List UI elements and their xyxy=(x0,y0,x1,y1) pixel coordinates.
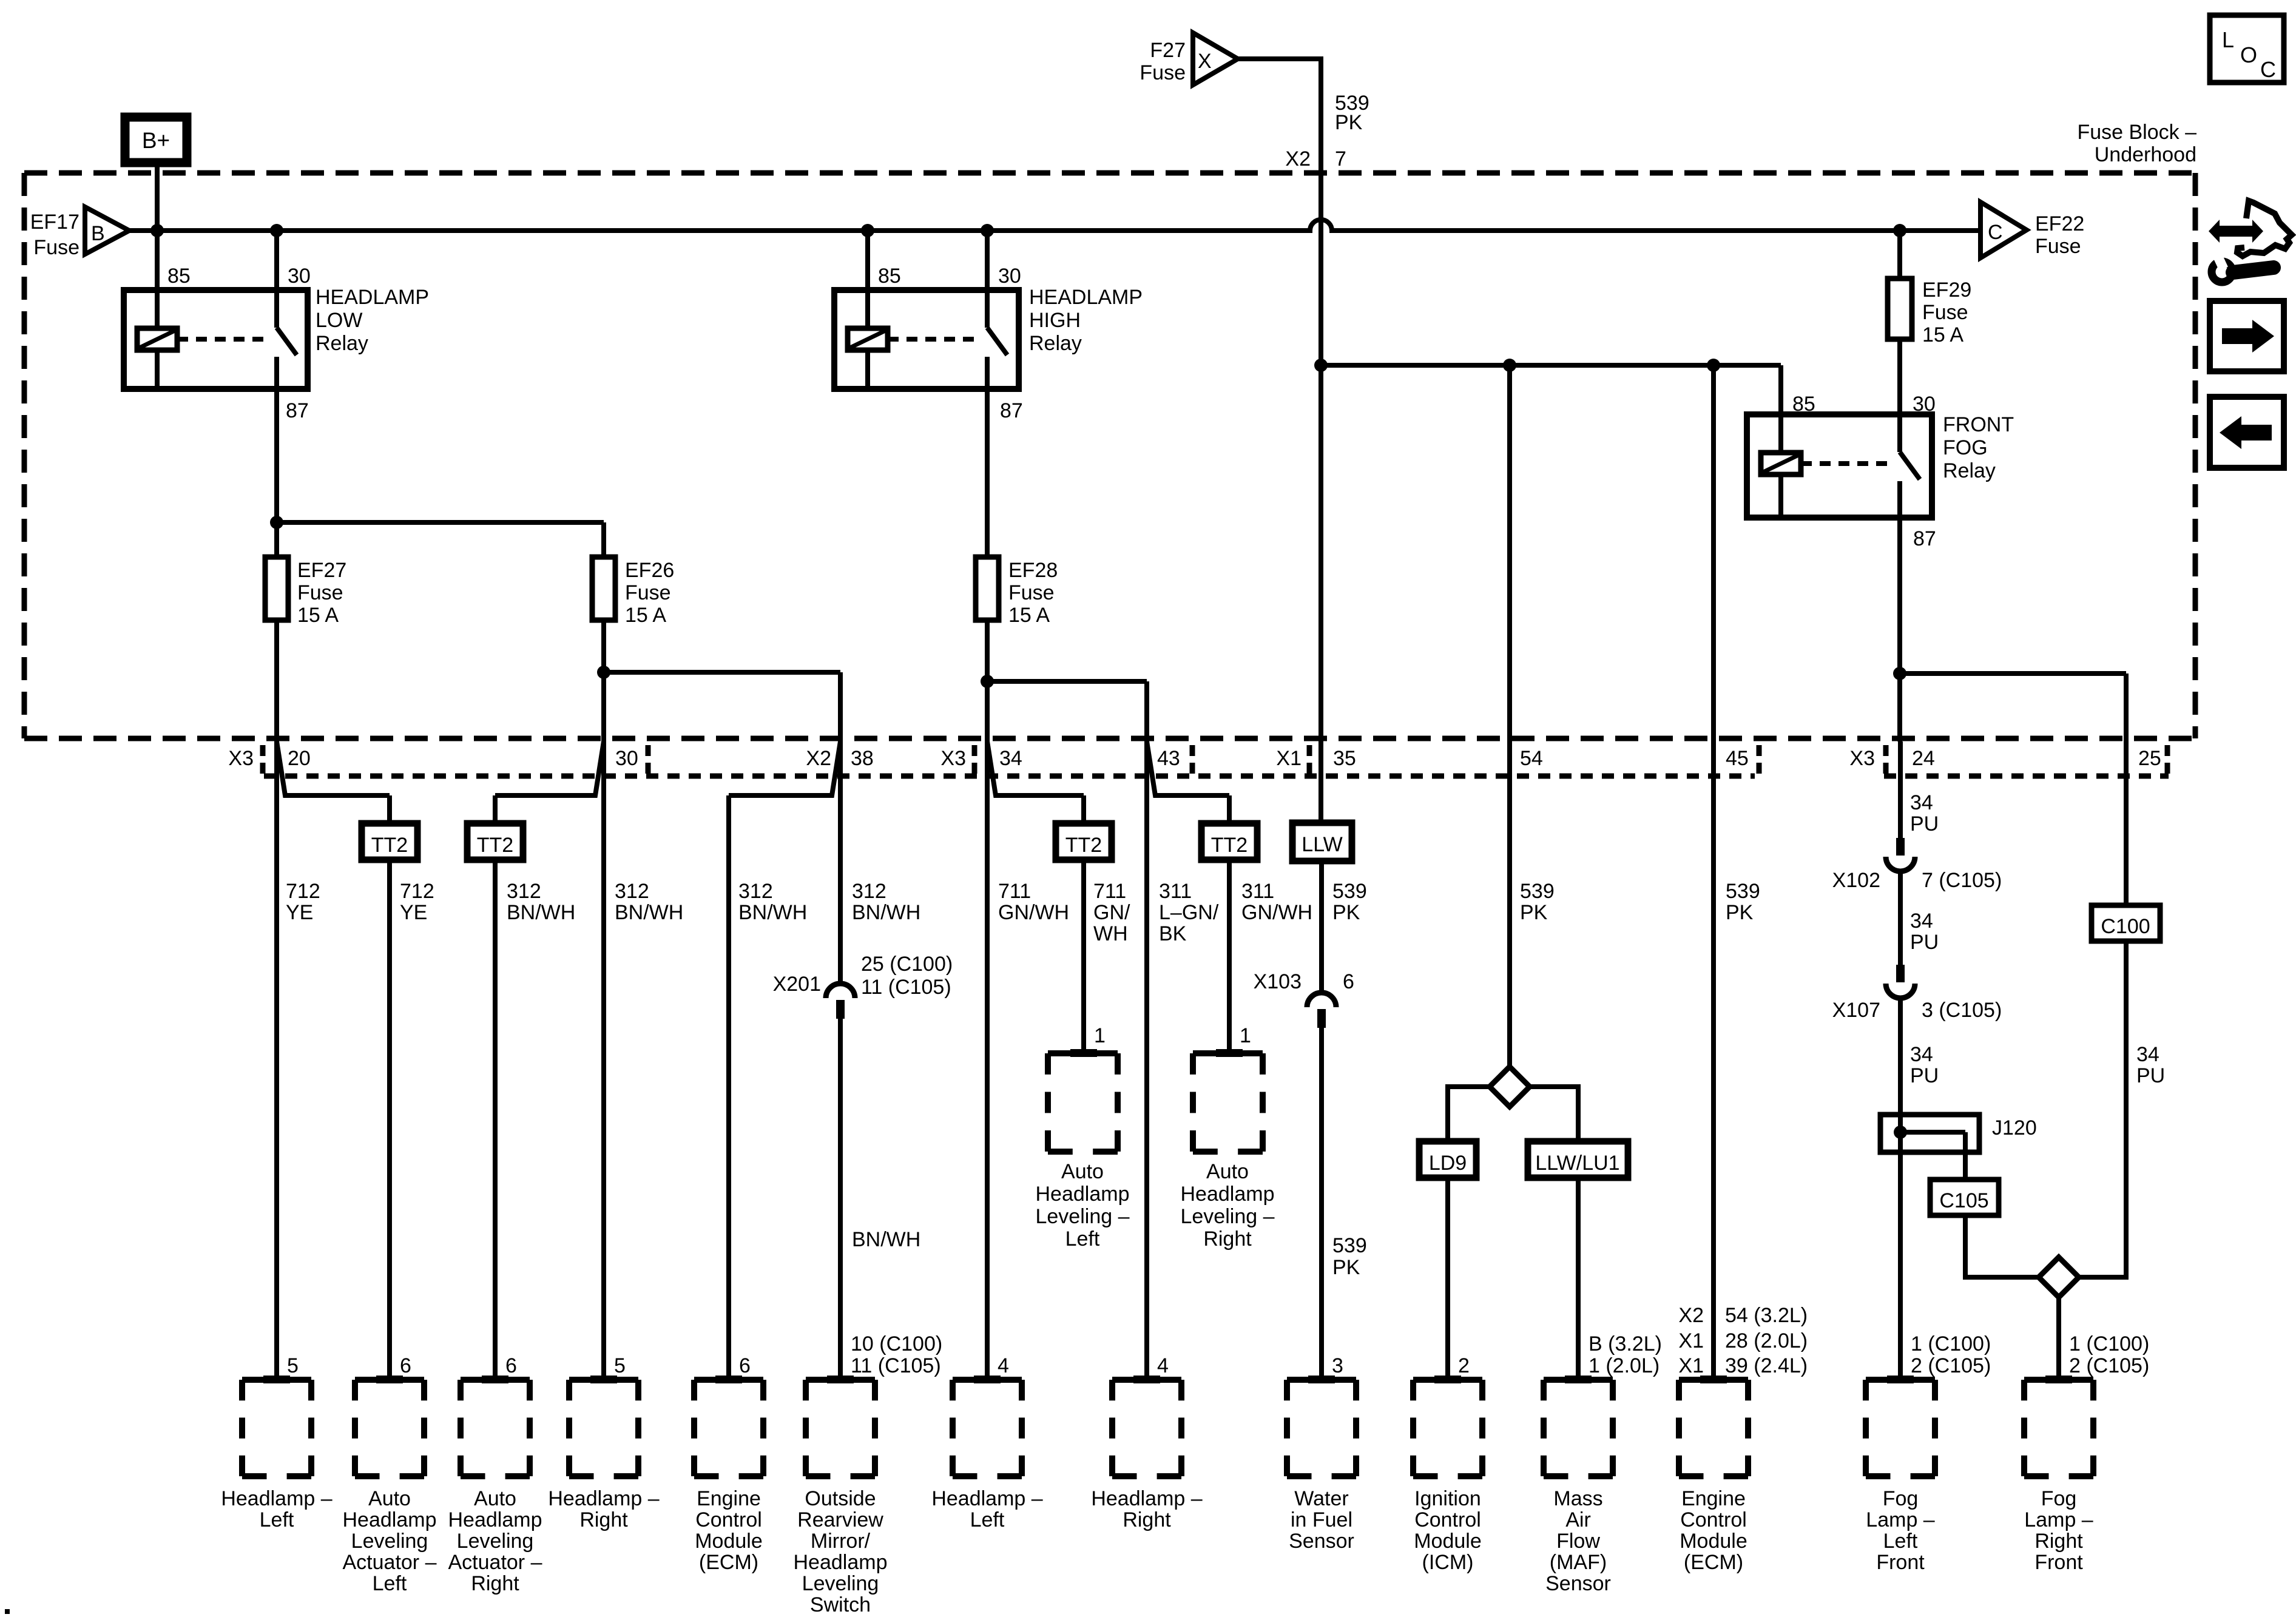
connector band short-dash line (right X3 group) xyxy=(1884,774,2169,779)
svg-text:Front: Front xyxy=(2034,1551,2083,1574)
svg-text:6: 6 xyxy=(400,1354,411,1377)
takeout TT2 (leveling right) xyxy=(1201,823,1257,860)
fuse EF28 15A xyxy=(976,557,999,620)
svg-text:15 A: 15 A xyxy=(1008,604,1050,627)
component headlamp right (dashed) xyxy=(569,1377,638,1383)
svg-text:1: 1 xyxy=(1094,1024,1106,1047)
svg-text:Right: Right xyxy=(471,1572,519,1595)
icon remove/replace (arrow + panel + wrench) xyxy=(2220,226,2252,237)
wire 712 YE to headlamp left xyxy=(274,741,279,1380)
wire 712 YE to actuator left xyxy=(387,860,392,1380)
svg-text:Leveling: Leveling xyxy=(802,1572,879,1595)
svg-text:1 (C100): 1 (C100) xyxy=(2069,1332,2149,1355)
node EF28/X3-43 branch xyxy=(981,675,994,688)
wire jog X3-34 to leveling left branch xyxy=(987,741,1084,795)
svg-text:PK: PK xyxy=(1335,111,1363,134)
svg-text:6: 6 xyxy=(1343,970,1354,993)
svg-text:Left: Left xyxy=(970,1508,1005,1531)
svg-text:Actuator –: Actuator – xyxy=(343,1551,437,1574)
svg-text:711: 711 xyxy=(1093,880,1126,903)
svg-text:Headlamp: Headlamp xyxy=(1036,1183,1130,1206)
svg-text:Headlamp: Headlamp xyxy=(1181,1183,1275,1206)
svg-text:43: 43 xyxy=(1157,747,1180,770)
svg-text:Flow: Flow xyxy=(1556,1530,1600,1553)
svg-text:34: 34 xyxy=(1910,1043,1933,1066)
inline connector X107 xyxy=(1896,965,1905,982)
svg-text:L: L xyxy=(2222,27,2234,52)
wire X107 to J120 xyxy=(1898,998,1903,1115)
fuse EF17 (triangle B) xyxy=(85,207,129,254)
svg-text:11 (C105): 11 (C105) xyxy=(861,976,951,999)
wire splice to LLW/LU1 xyxy=(1530,1087,1578,1141)
svg-text:712: 712 xyxy=(286,880,320,903)
svg-text:Fuse: Fuse xyxy=(625,581,671,604)
wire 711 GN/WH to headlamp left xyxy=(985,741,990,1380)
svg-text:Water: Water xyxy=(1294,1487,1348,1510)
wire fog relay 87 down xyxy=(1897,518,1902,741)
relay HEADLAMP LOW xyxy=(124,290,308,389)
fuse EF29 15A xyxy=(1888,279,1912,339)
svg-text:LLW/LU1: LLW/LU1 xyxy=(1535,1152,1619,1175)
svg-text:Relay: Relay xyxy=(316,332,368,355)
svg-text:Auto: Auto xyxy=(1061,1160,1104,1183)
svg-text:X107: X107 xyxy=(1832,999,1880,1022)
wire F27 fuse to 539 PK drop xyxy=(1238,56,1321,61)
svg-text:BN/WH: BN/WH xyxy=(738,901,807,924)
connector C100 xyxy=(2092,905,2160,941)
svg-text:GN/: GN/ xyxy=(1093,901,1130,924)
relay FRONT FOG xyxy=(1747,414,1932,518)
svg-text:Rearview: Rearview xyxy=(797,1508,883,1531)
svg-text:Leveling: Leveling xyxy=(351,1530,428,1553)
inline connector X201 xyxy=(826,984,855,998)
takeout LD9 xyxy=(1419,1141,1476,1178)
svg-text:Module: Module xyxy=(695,1530,763,1553)
wire 312 BN/WH to actuator right xyxy=(493,860,498,1380)
wire low relay 87 down xyxy=(274,389,279,557)
svg-text:Relay: Relay xyxy=(1943,459,1996,482)
wire TT2 drop (leveling right) xyxy=(1227,795,1232,823)
svg-text:Engine: Engine xyxy=(697,1487,761,1510)
svg-text:B: B xyxy=(91,222,105,245)
svg-text:Headlamp –: Headlamp – xyxy=(221,1487,332,1510)
svg-text:PK: PK xyxy=(1332,1256,1360,1279)
svg-text:X1: X1 xyxy=(1276,747,1302,770)
wire 312 BN/WH to headlamp right xyxy=(601,741,606,1380)
wire branch EF28 to X3-43 xyxy=(987,679,1147,684)
node 539/ICM-MAF branch xyxy=(1503,359,1516,372)
component headlamp left (high) (dashed) xyxy=(953,1377,1022,1383)
svg-text:4: 4 xyxy=(998,1354,1009,1377)
svg-text:Headlamp: Headlamp xyxy=(794,1551,888,1574)
connector band short-dash line (left groups) xyxy=(264,774,1755,779)
svg-text:HEADLAMP: HEADLAMP xyxy=(316,286,429,309)
wire 539 PK feed to front fog relay 85 xyxy=(1321,363,1781,368)
svg-text:X2: X2 xyxy=(806,747,831,770)
svg-text:2 (C105): 2 (C105) xyxy=(1911,1354,1991,1377)
svg-text:Headlamp: Headlamp xyxy=(448,1508,542,1531)
svg-text:FRONT: FRONT xyxy=(1943,413,2014,436)
svg-text:C: C xyxy=(2260,57,2276,82)
wire EF28 to X3-34 xyxy=(985,620,990,741)
svg-text:28 (2.0L): 28 (2.0L) xyxy=(1725,1329,1808,1352)
svg-text:HEADLAMP: HEADLAMP xyxy=(1029,286,1143,309)
svg-text:Fuse: Fuse xyxy=(1140,61,1186,84)
relay HEADLAMP HIGH xyxy=(834,290,1019,389)
wire C100 drop xyxy=(2124,741,2129,905)
component MAF sensor (dashed) xyxy=(1544,1377,1613,1383)
wire bus to EF29 fuse xyxy=(1897,231,1902,279)
connector bracket tick at x=2158 xyxy=(1307,745,1312,774)
connector bracket tick at x=433 xyxy=(260,745,266,774)
wire 539 PK X1-35 down xyxy=(1319,173,1323,823)
wire TT2 drop (leveling left) xyxy=(1081,795,1086,823)
svg-text:(MAF): (MAF) xyxy=(1550,1551,1607,1574)
svg-text:BN/WH: BN/WH xyxy=(615,901,683,924)
svg-text:1: 1 xyxy=(1240,1024,1251,1047)
component ECM (539) (dashed) xyxy=(1679,1377,1748,1383)
wire jog X3-20 to leveling branch xyxy=(277,741,390,795)
svg-text:Leveling –: Leveling – xyxy=(1180,1205,1274,1228)
svg-text:Module: Module xyxy=(1680,1530,1747,1553)
component actuator left (dashed) xyxy=(355,1377,424,1383)
svg-text:J120: J120 xyxy=(1992,1116,2037,1139)
svg-text:Leveling: Leveling xyxy=(457,1530,534,1553)
svg-text:in Fuel: in Fuel xyxy=(1291,1508,1352,1531)
wire LD9 to ICM xyxy=(1445,1178,1450,1380)
svg-text:X: X xyxy=(1198,50,1212,73)
svg-text:10 (C100): 10 (C100) xyxy=(851,1332,942,1355)
node bus/high relay 30 xyxy=(981,224,994,237)
takeout TT2 (actuator right) xyxy=(467,823,523,860)
svg-text:30: 30 xyxy=(998,265,1021,288)
svg-text:34: 34 xyxy=(2136,1043,2159,1066)
svg-text:312: 312 xyxy=(738,880,773,903)
svg-text:312: 312 xyxy=(852,880,886,903)
svg-text:X2: X2 xyxy=(1285,147,1311,170)
component leveling switch (dashed) xyxy=(806,1377,875,1383)
svg-text:Underhood: Underhood xyxy=(2095,143,2196,166)
svg-text:15 A: 15 A xyxy=(297,604,339,627)
icon box arrow left xyxy=(2210,397,2284,468)
svg-text:EF17: EF17 xyxy=(30,211,79,234)
svg-text:45: 45 xyxy=(1726,747,1749,770)
splice diamond (fog right) xyxy=(2039,1257,2079,1297)
node fog 87 branch xyxy=(1893,667,1906,680)
wire J120 to fog lamp left xyxy=(1898,1152,1903,1380)
svg-text:Headlamp: Headlamp xyxy=(343,1508,437,1531)
fuse EF27 15A xyxy=(265,557,288,620)
wire bus to low relay 85 xyxy=(155,231,160,290)
svg-text:PU: PU xyxy=(1910,1064,1939,1087)
inline connector X102 xyxy=(1896,838,1905,856)
wire splice to fog lamp right xyxy=(2056,1297,2061,1380)
wire C100 to splice xyxy=(2079,941,2126,1277)
component fog lamp left front (dashed) xyxy=(1866,1377,1935,1383)
node bus/high relay 85 xyxy=(861,224,874,237)
svg-text:7 (C105): 7 (C105) xyxy=(1922,869,2002,892)
wire B+ to bus xyxy=(155,166,160,231)
svg-text:C: C xyxy=(1988,221,2003,244)
svg-text:X102: X102 xyxy=(1832,869,1880,892)
svg-text:Right: Right xyxy=(2034,1530,2083,1553)
svg-text:711: 711 xyxy=(998,880,1031,903)
svg-text:X3: X3 xyxy=(940,747,966,770)
svg-text:X103: X103 xyxy=(1254,970,1302,993)
connector bracket tick at x=3572 xyxy=(2165,745,2170,774)
svg-text:Fuse: Fuse xyxy=(1008,581,1055,604)
svg-text:Switch: Switch xyxy=(810,1593,871,1616)
svg-text:Ignition: Ignition xyxy=(1414,1487,1481,1510)
svg-text:F27: F27 xyxy=(1150,39,1186,62)
svg-text:85: 85 xyxy=(167,265,191,288)
svg-text:HIGH: HIGH xyxy=(1029,309,1081,332)
connector bracket tick at x=2899 xyxy=(1757,745,1762,774)
svg-text:X3: X3 xyxy=(228,747,254,770)
svg-text:5: 5 xyxy=(287,1354,299,1377)
connector bracket tick at x=1068 xyxy=(646,745,651,774)
wire LLW to X103 xyxy=(1319,861,1324,993)
svg-text:5: 5 xyxy=(614,1354,626,1377)
svg-text:87: 87 xyxy=(1913,527,1936,550)
svg-text:LD9: LD9 xyxy=(1429,1152,1467,1175)
wire TT2 drop (actuator right) xyxy=(493,795,498,823)
svg-text:1 (C100): 1 (C100) xyxy=(1911,1332,1991,1355)
takeout LLW xyxy=(1292,823,1352,861)
component headlamp right (high) (dashed) xyxy=(1112,1377,1181,1383)
fuse EF22 (triangle C) xyxy=(1980,202,2027,258)
wire 311 GN/WH to leveling right module xyxy=(1227,860,1232,1053)
svg-text:30: 30 xyxy=(288,265,311,288)
wire branch to C100 drop xyxy=(1900,671,2126,676)
svg-text:PU: PU xyxy=(1910,931,1939,954)
connector C105 xyxy=(1930,1180,1999,1215)
svg-text:539: 539 xyxy=(1520,880,1555,903)
svg-text:Right: Right xyxy=(579,1508,628,1531)
svg-text:6: 6 xyxy=(505,1354,517,1377)
svg-text:GN/WH: GN/WH xyxy=(998,901,1069,924)
wire jog X2-38 to ECM branch xyxy=(729,741,840,795)
wire branch EF26 to X2-38 xyxy=(604,670,840,675)
wire 539 PK X1-54 down xyxy=(1507,365,1512,1067)
svg-text:35: 35 xyxy=(1333,747,1356,770)
svg-text:LLW: LLW xyxy=(1302,833,1342,856)
wire bus to high relay 85 xyxy=(865,231,870,290)
wire EF27 to X3-20 xyxy=(274,620,279,741)
svg-text:C105: C105 xyxy=(1939,1189,1988,1212)
svg-text:B+: B+ xyxy=(142,128,170,153)
wire jog X3-30 to leveling branch xyxy=(495,741,604,795)
svg-text:Relay: Relay xyxy=(1029,332,1082,355)
svg-text:FOG: FOG xyxy=(1943,436,1988,459)
svg-text:20: 20 xyxy=(288,747,311,770)
component Auto Headlamp Leveling Left (dashed) xyxy=(1048,1050,1118,1056)
takeout TT2 (actuator left) xyxy=(362,823,417,860)
node bus/EF29 xyxy=(1893,224,1906,237)
svg-text:EF27: EF27 xyxy=(297,559,346,582)
svg-text:312: 312 xyxy=(615,880,649,903)
wire 711 GN/WH to leveling left module xyxy=(1081,860,1086,1053)
splice diamond (ICM/MAF) xyxy=(1490,1067,1530,1107)
page mark bottom left xyxy=(5,1609,10,1614)
svg-text:38: 38 xyxy=(851,747,874,770)
svg-text:Fuse: Fuse xyxy=(2035,235,2081,258)
svg-text:712: 712 xyxy=(400,880,434,903)
svg-text:Auto: Auto xyxy=(1206,1160,1249,1183)
svg-text:(ICM): (ICM) xyxy=(1422,1551,1474,1574)
svg-text:539: 539 xyxy=(1332,880,1367,903)
svg-text:Mass: Mass xyxy=(1553,1487,1602,1510)
legend LOC box xyxy=(2210,15,2284,83)
node 539/ECM branch xyxy=(1707,359,1720,372)
svg-text:2 (C105): 2 (C105) xyxy=(2069,1354,2149,1377)
svg-text:34: 34 xyxy=(1910,910,1933,933)
svg-text:311: 311 xyxy=(1159,880,1192,903)
svg-text:GN/WH: GN/WH xyxy=(1241,901,1312,924)
connector bracket tick at x=1965 xyxy=(1190,745,1195,774)
svg-text:Actuator –: Actuator – xyxy=(448,1551,542,1574)
svg-text:BN/WH: BN/WH xyxy=(852,1228,920,1251)
svg-text:TT2: TT2 xyxy=(371,834,408,857)
svg-text:(ECM): (ECM) xyxy=(1684,1551,1743,1574)
svg-text:87: 87 xyxy=(1000,399,1023,422)
svg-text:25 (C100): 25 (C100) xyxy=(861,953,953,976)
svg-text:Air: Air xyxy=(1565,1508,1591,1531)
svg-text:X201: X201 xyxy=(773,973,821,996)
svg-text:Fuse: Fuse xyxy=(297,581,343,604)
svg-text:Mirror/: Mirror/ xyxy=(811,1530,871,1553)
svg-text:87: 87 xyxy=(286,399,309,422)
svg-text:EF22: EF22 xyxy=(2035,212,2084,235)
takeout TT2 (leveling left) xyxy=(1056,823,1112,860)
wire 34 PU X3-24 down xyxy=(1898,741,1903,838)
wire 311 L-GN/BK to headlamp right xyxy=(1144,741,1149,1380)
component fog lamp right front (dashed) xyxy=(2024,1377,2093,1383)
svg-text:PU: PU xyxy=(1910,812,1939,836)
svg-text:539: 539 xyxy=(1332,1234,1367,1257)
component headlamp left (dashed) xyxy=(242,1377,311,1383)
svg-text:X1: X1 xyxy=(1678,1329,1704,1352)
node 87/EF26 branch xyxy=(270,516,283,529)
svg-text:L–GN/: L–GN/ xyxy=(1159,901,1219,924)
svg-text:34: 34 xyxy=(1910,791,1933,814)
svg-text:BN/WH: BN/WH xyxy=(507,901,575,924)
wire 539 PK to water in fuel sensor xyxy=(1319,1028,1324,1380)
svg-text:C100: C100 xyxy=(2101,915,2150,938)
svg-text:3 (C105): 3 (C105) xyxy=(1922,999,2002,1022)
svg-text:Fog: Fog xyxy=(2041,1487,2077,1510)
connector bracket tick at x=3108 xyxy=(1883,745,1889,774)
svg-text:X3: X3 xyxy=(1849,747,1875,770)
wire jog X3-43 to leveling right branch xyxy=(1147,741,1229,795)
svg-text:3: 3 xyxy=(1332,1354,1343,1377)
svg-text:PK: PK xyxy=(1520,901,1548,924)
wire high relay 87 down xyxy=(985,389,990,557)
wire splice to LD9 xyxy=(1448,1087,1490,1141)
svg-text:Sensor: Sensor xyxy=(1289,1530,1354,1553)
svg-text:B (3.2L): B (3.2L) xyxy=(1589,1332,1662,1355)
svg-text:WH: WH xyxy=(1093,922,1128,945)
main battery bus wire with hop over 539 PK xyxy=(129,220,1980,231)
svg-text:BN/WH: BN/WH xyxy=(852,901,920,924)
svg-text:311: 311 xyxy=(1241,880,1274,903)
svg-text:(ECM): (ECM) xyxy=(699,1551,758,1574)
svg-text:X1: X1 xyxy=(1678,1354,1704,1377)
svg-text:1 (2.0L): 1 (2.0L) xyxy=(1589,1354,1660,1377)
svg-text:Control: Control xyxy=(695,1508,762,1531)
svg-text:312: 312 xyxy=(507,880,541,903)
wire branch to EF26 xyxy=(277,520,604,525)
svg-text:TT2: TT2 xyxy=(477,834,513,857)
wire BN/WH to leveling switch xyxy=(838,1019,843,1380)
svg-text:Left: Left xyxy=(1883,1530,1918,1553)
svg-text:Headlamp –: Headlamp – xyxy=(548,1487,659,1510)
svg-text:Lamp –: Lamp – xyxy=(1866,1508,1934,1531)
svg-text:PK: PK xyxy=(1726,901,1754,924)
wire X102 to X107 xyxy=(1898,871,1903,965)
svg-text:PU: PU xyxy=(2136,1064,2165,1087)
svg-text:2: 2 xyxy=(1458,1354,1470,1377)
svg-text:Lamp –: Lamp – xyxy=(2024,1508,2093,1531)
svg-text:15 A: 15 A xyxy=(625,604,666,627)
svg-text:Headlamp –: Headlamp – xyxy=(1091,1487,1202,1510)
svg-text:TT2: TT2 xyxy=(1065,834,1102,857)
wire bus to low relay 30 xyxy=(274,231,279,290)
inline connector X103 xyxy=(1307,993,1336,1007)
svg-text:PK: PK xyxy=(1332,901,1360,924)
svg-text:O: O xyxy=(2240,42,2257,67)
node EF26/X2-38 branch xyxy=(597,666,610,679)
svg-text:15 A: 15 A xyxy=(1922,323,1963,346)
svg-text:Leveling –: Leveling – xyxy=(1035,1205,1129,1228)
svg-text:6: 6 xyxy=(739,1354,751,1377)
icon box arrow right xyxy=(2210,301,2284,371)
splice pack J120 xyxy=(1880,1115,1979,1152)
svg-text:Front: Front xyxy=(1876,1551,1925,1574)
svg-text:YE: YE xyxy=(400,901,427,924)
component water in fuel sensor (dashed) xyxy=(1287,1377,1356,1383)
svg-text:Auto: Auto xyxy=(368,1487,411,1510)
svg-text:BK: BK xyxy=(1159,922,1187,945)
svg-text:Control: Control xyxy=(1414,1508,1481,1531)
wire EF26 down xyxy=(601,620,606,741)
svg-text:54: 54 xyxy=(1520,747,1543,770)
svg-text:25: 25 xyxy=(2138,747,2161,770)
svg-text:EF28: EF28 xyxy=(1008,559,1058,582)
svg-text:Headlamp –: Headlamp – xyxy=(931,1487,1042,1510)
svg-text:539: 539 xyxy=(1726,880,1760,903)
svg-text:Module: Module xyxy=(1414,1530,1482,1553)
svg-text:54 (3.2L): 54 (3.2L) xyxy=(1725,1304,1808,1327)
power node B+ xyxy=(125,117,187,163)
svg-text:Left: Left xyxy=(1065,1227,1100,1251)
svg-text:Right: Right xyxy=(1123,1508,1171,1531)
node 539/X1-35 branch xyxy=(1314,359,1328,372)
node bus/low relay 30 xyxy=(270,224,283,237)
svg-text:Fuse Block –: Fuse Block – xyxy=(2077,121,2196,144)
node bus/B+ xyxy=(150,224,164,237)
svg-text:X2: X2 xyxy=(1678,1304,1704,1327)
svg-text:24: 24 xyxy=(1912,747,1935,770)
svg-text:TT2: TT2 xyxy=(1211,834,1248,857)
svg-text:YE: YE xyxy=(286,901,313,924)
svg-text:Sensor: Sensor xyxy=(1545,1572,1611,1595)
wire C105 to splice xyxy=(1965,1215,2039,1277)
svg-text:11 (C105): 11 (C105) xyxy=(851,1354,941,1377)
svg-text:39 (2.4L): 39 (2.4L) xyxy=(1725,1354,1808,1377)
svg-text:Fuse: Fuse xyxy=(33,236,79,259)
svg-text:4: 4 xyxy=(1157,1354,1169,1377)
